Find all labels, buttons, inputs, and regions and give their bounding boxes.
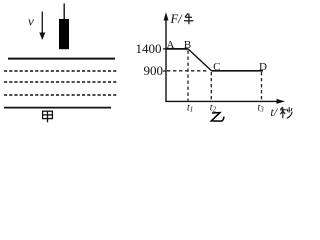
svg-text:A: A (167, 39, 175, 51)
label jia (Chinese: first) (43, 111, 53, 122)
segment A-B at 1400 (166, 48, 188, 50)
water dashed line 3 (4, 94, 117, 96)
segment C-D at 900 (212, 70, 264, 72)
velocity arrow (39, 12, 45, 41)
dashed drop at t1 (187, 51, 189, 102)
dashed drop at t2 (210, 72, 212, 101)
rod above block (63, 4, 65, 20)
svg-text:900: 900 (144, 63, 164, 78)
dashed drop at t3 (261, 72, 263, 101)
svg-text:v: v (28, 14, 34, 29)
svg-text:1400: 1400 (136, 41, 162, 56)
tick 1400 (163, 48, 166, 50)
svg-text:B: B (184, 39, 191, 51)
dashed level 900 (167, 70, 208, 72)
x-axis (t axis) (165, 99, 285, 104)
label yi (Chinese: second figure) (211, 113, 224, 122)
block (solid) (59, 19, 69, 49)
svg-text:t1: t1 (187, 103, 193, 114)
water surface line (8, 58, 115, 60)
svg-text:C: C (213, 61, 220, 73)
water dashed line 2 (4, 81, 117, 83)
water dashed line 1 (4, 70, 117, 72)
svg-text:F/: F/ (170, 12, 184, 26)
svg-text:t3: t3 (258, 103, 265, 114)
svg-text:D: D (259, 61, 267, 73)
svg-text:t2: t2 (210, 103, 217, 114)
y-axis (F axis) (164, 12, 169, 102)
character niu (newton) (184, 13, 193, 24)
bottom line (4, 107, 111, 109)
character miao (second) (280, 107, 292, 118)
tick 900 (163, 70, 166, 72)
sloped segment B-C (188, 49, 212, 71)
svg-text:t/: t/ (270, 105, 278, 119)
